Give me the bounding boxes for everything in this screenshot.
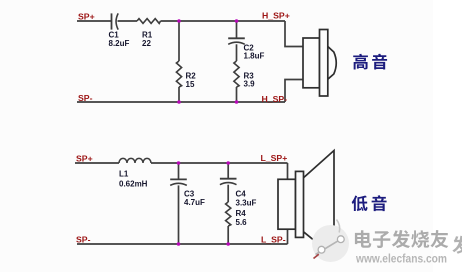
svg-text:5.6: 5.6 xyxy=(236,218,248,227)
resistor R2 xyxy=(176,61,181,87)
svg-text:L_SP+: L_SP+ xyxy=(261,153,288,163)
svg-text:22: 22 xyxy=(142,39,151,48)
junction top rail / C3 xyxy=(177,161,181,165)
wire C3 to bottom rail xyxy=(178,185,180,244)
svg-text:R4: R4 xyxy=(236,209,247,218)
svg-text:SP+: SP+ xyxy=(76,154,93,164)
resistor R1 xyxy=(137,19,161,24)
wire C2 to R3 xyxy=(236,44,238,61)
junction bottom rail / R4 xyxy=(226,242,230,246)
wire R4 to bottom rail xyxy=(227,226,229,244)
wire L1 to woofer branch (top rail) xyxy=(151,162,288,164)
wire bottom rail SP- xyxy=(77,243,288,245)
wire R3 to bottom rail xyxy=(236,87,238,102)
svg-text:15: 15 xyxy=(186,80,195,89)
svg-text:L_SP-: L_SP- xyxy=(261,234,286,244)
resistor R3 xyxy=(234,61,239,87)
wire SP+ to C1 left plate xyxy=(77,20,111,22)
wire H_SP+ down to tweeter plus terminal xyxy=(285,21,303,47)
junction bottom rail / C3 xyxy=(177,242,181,246)
junction top rail / C2 xyxy=(235,19,239,23)
watermark elecfans logo circle xyxy=(312,220,349,263)
svg-text:SP+: SP+ xyxy=(78,12,95,22)
wire top rail to C2 xyxy=(236,21,238,38)
wire R1 to tweeter branch (top rail) xyxy=(161,20,286,22)
capacitor C2 xyxy=(228,38,245,44)
capacitor C4 xyxy=(220,179,237,185)
wire C1 to R1 xyxy=(118,20,138,22)
svg-text:1.8uF: 1.8uF xyxy=(244,52,265,61)
capacitor C3 xyxy=(170,179,187,185)
wire C4 to R4 xyxy=(227,185,229,202)
svg-text:3.3uF: 3.3uF xyxy=(236,199,257,208)
wire top rail to C4 xyxy=(227,163,229,179)
wire bottom rail SP- xyxy=(77,101,285,103)
label woofer 低音 xyxy=(352,195,387,211)
junction top rail / R2 xyxy=(177,19,181,23)
wire top rail junction down to R2 xyxy=(178,21,180,61)
watermark text 电子发烧友 xyxy=(355,230,448,248)
speaker LS2 woofer xyxy=(278,151,334,257)
wire L_SP+ down to woofer plus terminal xyxy=(287,163,289,179)
junction bottom rail / R3 xyxy=(235,100,239,104)
wire top rail to C3 xyxy=(178,163,180,179)
wire tweeter minus terminal down to H_SP- xyxy=(285,80,303,103)
label tweeter 高音 xyxy=(353,54,387,70)
svg-text:4.7uF: 4.7uF xyxy=(184,198,205,207)
svg-text:C4: C4 xyxy=(236,190,247,199)
wire woofer minus terminal down to L_SP- xyxy=(287,229,289,244)
speaker LS1 tweeter xyxy=(303,30,336,97)
capacitor C1 xyxy=(112,13,119,29)
svg-text:H_SP+: H_SP+ xyxy=(262,11,290,21)
svg-text:8.2uF: 8.2uF xyxy=(109,39,130,48)
svg-text:www.elecfans.com: www.elecfans.com xyxy=(355,251,447,265)
svg-text:SP-: SP- xyxy=(76,234,91,244)
junction top rail / C4 xyxy=(226,161,230,165)
resistor R4 xyxy=(226,202,231,226)
wire R2 to bottom rail xyxy=(178,87,180,102)
svg-text:3.9: 3.9 xyxy=(244,79,256,88)
watermark text partial char right edge xyxy=(452,236,462,254)
svg-text:H_SP-: H_SP- xyxy=(262,94,288,104)
inductor L1 xyxy=(119,158,151,163)
svg-text:0.62mH: 0.62mH xyxy=(119,179,148,188)
svg-text:L1: L1 xyxy=(119,170,129,179)
junction bottom rail / R2 xyxy=(177,100,181,104)
wire SP+ to L1 xyxy=(75,162,119,164)
